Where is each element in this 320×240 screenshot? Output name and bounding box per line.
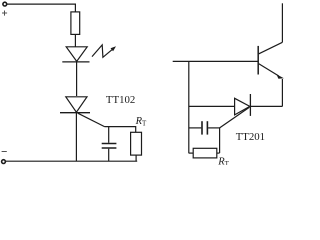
wire (left branch down) <box>188 61 190 153</box>
thyristor TT102 <box>60 97 105 127</box>
wire (cathode to emitter rail) <box>250 105 282 107</box>
wire (anode rail) <box>189 105 235 107</box>
label + <box>2 11 7 16</box>
wire bottom rail <box>6 160 138 162</box>
capacitor C1 <box>102 127 117 162</box>
wire (gate junction down) <box>219 128 221 153</box>
resistor R (top, unlabeled) <box>71 12 80 35</box>
svg-text:TT201: TT201 <box>236 131 265 143</box>
light arrow (zigzag) <box>92 45 116 57</box>
wire (gate rail) <box>105 127 136 133</box>
wire (cathode down) <box>75 113 77 162</box>
thyristor TT201 <box>220 94 251 128</box>
resistor RT (right) <box>189 148 220 158</box>
wire top rail <box>7 4 75 12</box>
resistor RT (left) <box>131 132 142 161</box>
label - <box>2 151 7 153</box>
capacitor C2 <box>189 121 220 134</box>
diode LED D1 <box>62 47 89 62</box>
wire (collector rail up) <box>281 3 283 42</box>
wire (right top rail) <box>173 60 259 62</box>
svg-text:RT: RT <box>217 156 229 165</box>
terminal - (bottom-left) <box>2 160 6 164</box>
wire <box>76 62 78 96</box>
transistor Q1 <box>258 42 284 79</box>
wire (emitter rail down) <box>281 79 283 106</box>
terminal + (top-left) <box>3 2 7 6</box>
svg-text:RT: RT <box>135 116 147 128</box>
svg-text:TT102: TT102 <box>106 94 135 106</box>
wire <box>74 34 76 46</box>
